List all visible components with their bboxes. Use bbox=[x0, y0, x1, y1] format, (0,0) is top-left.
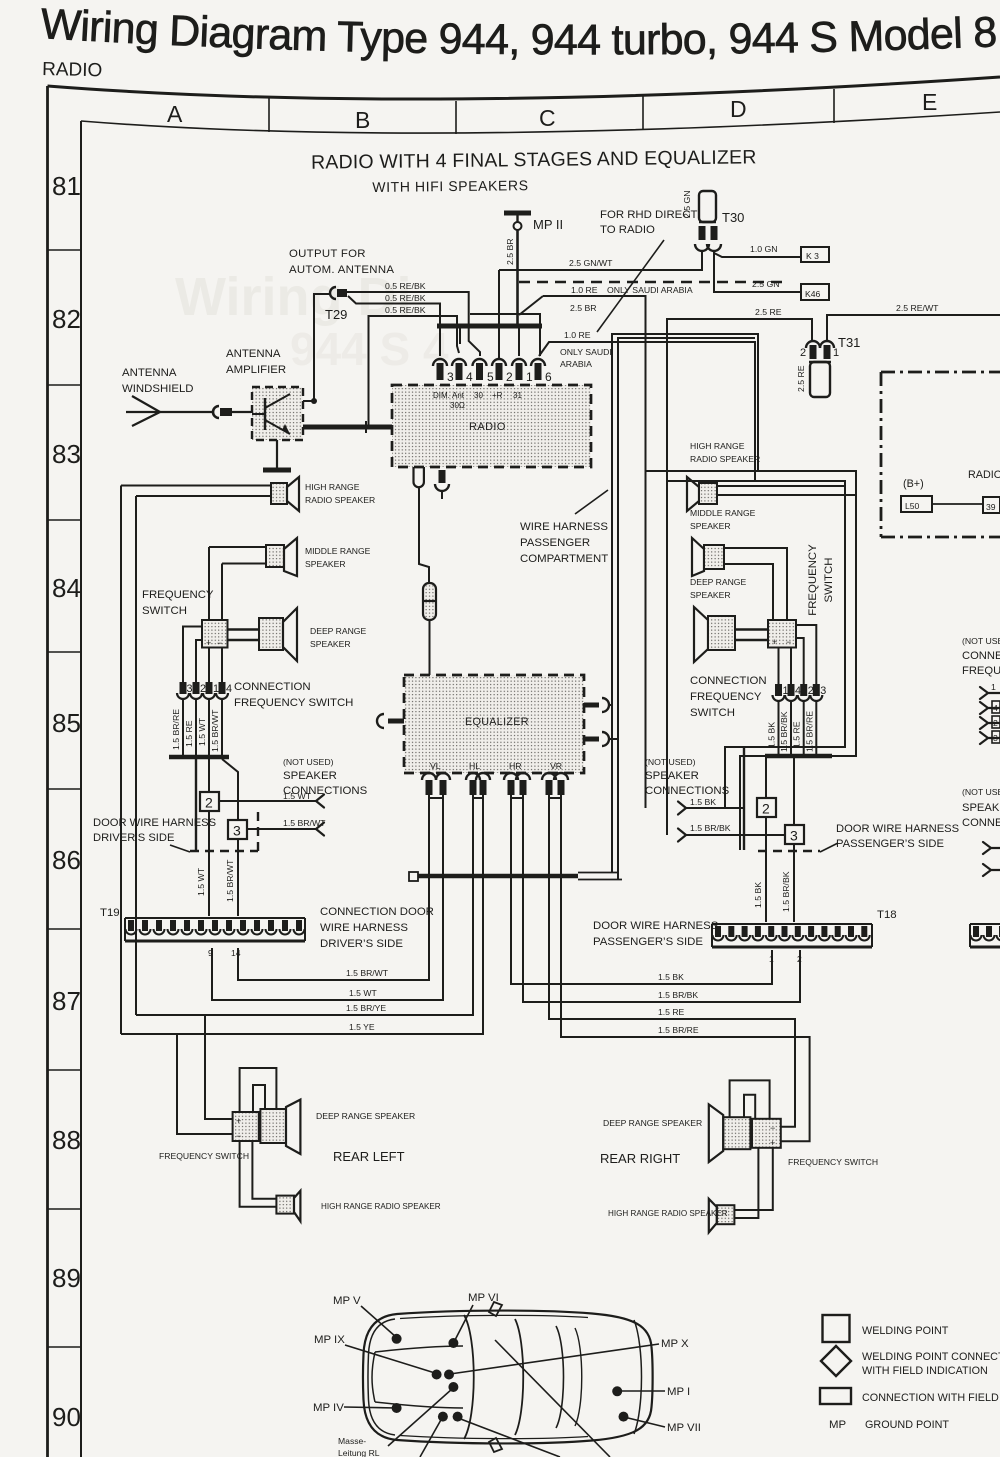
svg-text:30Ω: 30Ω bbox=[450, 401, 465, 410]
svg-text:2.5 GN: 2.5 GN bbox=[682, 190, 692, 218]
svg-text:ANTENNA: ANTENNA bbox=[122, 367, 177, 379]
svg-text:DRIVER’S SIDE: DRIVER’S SIDE bbox=[93, 832, 174, 844]
equalizer output pins VL HL HR VR bbox=[422, 773, 568, 798]
svg-text:T31: T31 bbox=[838, 335, 860, 350]
ground point dot MP VII bbox=[619, 1412, 701, 1434]
svg-text:HIGH RANGE RADIO SPEAKER: HIGH RANGE RADIO SPEAKER bbox=[608, 1209, 728, 1218]
svg-text:DEEP RANGE SPEAKER: DEEP RANGE SPEAKER bbox=[603, 1118, 702, 1128]
left switch wiring bbox=[183, 547, 222, 682]
fork wire 1.5 BR/BK (right) bbox=[678, 823, 785, 842]
svg-text:C: C bbox=[539, 105, 556, 131]
label Masse-Leitung RL with leader bbox=[338, 1389, 452, 1457]
svg-text:1.5 BR/BK: 1.5 BR/BK bbox=[781, 871, 791, 912]
rear left speaker loop wires bbox=[240, 1068, 277, 1112]
svg-text:CONNECTION DOOR: CONNECTION DOOR bbox=[320, 906, 434, 918]
label rear left bbox=[333, 1149, 405, 1164]
far right fork connectors (2) bbox=[983, 842, 1000, 876]
svg-text:MP X: MP X bbox=[661, 1338, 689, 1350]
svg-text:1.5 WT: 1.5 WT bbox=[349, 988, 377, 998]
svg-text:30: 30 bbox=[474, 391, 483, 400]
wire 1.0 RE only saudi arabia (solid) bbox=[543, 296, 646, 808]
svg-text:2: 2 bbox=[800, 347, 806, 359]
svg-text:(NOT USED): (NOT USED) bbox=[645, 757, 696, 767]
left high range radio speaker bbox=[121, 477, 375, 511]
svg-text:2.5 RE/WT: 2.5 RE/WT bbox=[896, 303, 939, 313]
svg-text:1.5 YE: 1.5 YE bbox=[349, 1022, 375, 1032]
right frequency switch bbox=[735, 620, 796, 648]
svg-text:82: 82 bbox=[52, 304, 81, 334]
radio unit bbox=[392, 385, 591, 467]
ground point dots MP IX pair bbox=[314, 1334, 454, 1380]
svg-text:HL: HL bbox=[469, 761, 480, 771]
far right not used speaker connections labels bbox=[962, 787, 1000, 829]
svg-text:SPEAKER: SPEAKER bbox=[690, 590, 731, 600]
svg-text:MP I: MP I bbox=[667, 1386, 690, 1398]
svg-text:T30: T30 bbox=[722, 210, 744, 225]
wire 2.5 BR bbox=[470, 303, 597, 356]
wire HR 1.5 BK bbox=[511, 795, 772, 984]
svg-text:WELDING POINT CONNECTION: WELDING POINT CONNECTION bbox=[862, 1351, 1000, 1363]
svg-text:REAR RIGHT: REAR RIGHT bbox=[600, 1151, 680, 1166]
label not used speaker connections (left) bbox=[283, 757, 368, 797]
svg-text:DIM.: DIM. bbox=[433, 391, 450, 400]
svg-text:89: 89 bbox=[52, 1263, 81, 1293]
svg-text:SWITCH: SWITCH bbox=[142, 605, 187, 617]
dashed bracket (passenger side) bbox=[758, 850, 820, 852]
legend welding point with field indication bbox=[821, 1346, 1000, 1377]
wire 2.5 BR from MP II bbox=[505, 230, 518, 326]
svg-text:Leitung RL: Leitung RL bbox=[338, 1448, 380, 1457]
svg-text:(NOT USED): (NOT USED) bbox=[283, 757, 334, 767]
wire VL 1.5 WT bbox=[212, 795, 443, 1000]
wire VR 1.5 BR/RE bbox=[561, 795, 810, 1141]
svg-text:0.5 RE/BK: 0.5 RE/BK bbox=[385, 281, 426, 291]
ground point dots rear pair bbox=[438, 1412, 463, 1422]
svg-text:1.5 BR/WT: 1.5 BR/WT bbox=[346, 968, 389, 978]
svg-text:D: D bbox=[730, 96, 747, 122]
svg-text:CONNEC: CONNEC bbox=[962, 817, 1000, 829]
svg-text:83: 83 bbox=[52, 439, 81, 469]
svg-text:3: 3 bbox=[790, 828, 798, 844]
svg-text:PASSENGER’S SIDE: PASSENGER’S SIDE bbox=[836, 838, 944, 850]
svg-text:FREQUENCY: FREQUENCY bbox=[142, 589, 214, 601]
svg-text:1.5 BR/BK: 1.5 BR/BK bbox=[658, 990, 698, 1000]
svg-text:CONNECTION WITH FIELD DA: CONNECTION WITH FIELD DA bbox=[862, 1392, 1000, 1404]
svg-text:HIGH RANGE: HIGH RANGE bbox=[305, 482, 360, 492]
column divider D-E bbox=[833, 89, 835, 123]
svg-text:39: 39 bbox=[986, 502, 996, 512]
car body outline (top view) bbox=[363, 1302, 653, 1452]
ground point dot MP VI bbox=[448, 1292, 498, 1348]
wire HL 1.5 YE bbox=[121, 795, 483, 1034]
svg-text:FREQUENCY: FREQUENCY bbox=[807, 544, 819, 616]
left frequency switch label bbox=[142, 589, 214, 617]
wire 0.5 RE/BK (2) bbox=[348, 293, 440, 356]
svg-text:HIGH RANGE RADIO SPEAKER: HIGH RANGE RADIO SPEAKER bbox=[321, 1202, 441, 1211]
label door wire harness passenger's side (lower) bbox=[593, 920, 719, 948]
rear left high range radio speaker bbox=[276, 1191, 440, 1221]
label connection frequency switch (right) bbox=[690, 675, 767, 719]
rear left high range speaker wires bbox=[240, 1141, 277, 1207]
svg-text:ANTENNA: ANTENNA bbox=[226, 348, 281, 360]
svg-text:SPEAKER: SPEAKER bbox=[305, 559, 346, 569]
svg-text:WIRE HARNESS: WIRE HARNESS bbox=[520, 521, 608, 533]
svg-text:RADIO: RADIO bbox=[968, 469, 1000, 481]
svg-text:CONNECTION: CONNECTION bbox=[234, 681, 311, 693]
svg-text:RADIO: RADIO bbox=[42, 59, 103, 81]
svg-text:0.5 RE/BK: 0.5 RE/BK bbox=[385, 305, 426, 315]
connector box 2 (driver side) bbox=[200, 792, 219, 811]
svg-text:TO RADIO: TO RADIO bbox=[600, 224, 655, 236]
label rear right bbox=[600, 1151, 680, 1166]
column divider A-B bbox=[268, 98, 270, 132]
wire 2.5 RE/WT bbox=[827, 303, 1000, 341]
radio bottom pin bbox=[435, 470, 449, 499]
svg-text:81: 81 bbox=[52, 171, 81, 201]
svg-text:FREQUENCY SWITCH: FREQUENCY SWITCH bbox=[159, 1151, 249, 1161]
harness vertical pair bbox=[612, 334, 758, 880]
amplifier ground bbox=[263, 440, 291, 470]
svg-text:VR: VR bbox=[550, 761, 562, 771]
svg-text:MIDDLE RANGE: MIDDLE RANGE bbox=[305, 546, 371, 556]
legend welding point bbox=[823, 1315, 949, 1342]
svg-text:3: 3 bbox=[993, 733, 998, 743]
svg-text:OUTPUT FOR: OUTPUT FOR bbox=[289, 248, 366, 260]
svg-text:1: 1 bbox=[769, 954, 774, 964]
left frequency switch bbox=[202, 620, 259, 648]
svg-text:4: 4 bbox=[226, 683, 232, 695]
ground point dot MP V bbox=[333, 1295, 402, 1344]
svg-text:WELDING POINT: WELDING POINT bbox=[862, 1325, 949, 1337]
svg-text:SPEAKER: SPEAKER bbox=[645, 770, 699, 782]
wires boxes to T19 bbox=[196, 811, 238, 916]
svg-text:1.5 BR/BK: 1.5 BR/BK bbox=[779, 711, 789, 752]
svg-text:1: 1 bbox=[991, 682, 996, 692]
svg-text:2: 2 bbox=[762, 801, 770, 817]
svg-text:DOOR WIRE HARNESS: DOOR WIRE HARNESS bbox=[836, 823, 959, 835]
svg-text:1.5 BK: 1.5 BK bbox=[767, 722, 777, 748]
svg-text:2: 2 bbox=[797, 954, 802, 964]
label not used speaker connections (right) bbox=[645, 757, 730, 797]
rear right high range radio speaker bbox=[608, 1199, 734, 1233]
svg-text:3: 3 bbox=[233, 823, 241, 839]
svg-text:2.5 RE: 2.5 RE bbox=[796, 365, 806, 392]
dashed wire 1.0 RE only saudi arabia bbox=[519, 282, 788, 295]
wire 0.5 RE/BK (1) bbox=[347, 281, 480, 356]
diagram heading bbox=[311, 146, 757, 195]
ground point dot MP I bbox=[612, 1386, 690, 1398]
svg-text:2.5 RE: 2.5 RE bbox=[755, 307, 782, 317]
inline connector capsule bbox=[423, 583, 436, 675]
svg-text:85: 85 bbox=[52, 708, 81, 738]
svg-text:HR: HR bbox=[509, 761, 522, 771]
svg-text:DEEP RANGE: DEEP RANGE bbox=[310, 626, 366, 636]
right frequency switch label (rotated) bbox=[807, 544, 835, 616]
svg-text:6: 6 bbox=[545, 370, 552, 384]
right connection frequency switch pins 1 4 2 3 bbox=[773, 684, 827, 701]
connector T29 bbox=[325, 287, 347, 322]
svg-text:L50: L50 bbox=[905, 501, 920, 511]
svg-text:FREQUENCY SWITCH: FREQUENCY SWITCH bbox=[234, 697, 353, 709]
wires boxes to T18 bbox=[753, 817, 794, 922]
wire 0.5 RE/BK (3) bbox=[369, 305, 460, 425]
wire 1.5 WT to fork (left) bbox=[219, 791, 324, 808]
svg-text:DEEP RANGE: DEEP RANGE bbox=[690, 577, 746, 587]
svg-text:+: + bbox=[772, 637, 777, 647]
wire to antenna amplifier supply bbox=[303, 294, 331, 404]
svg-text:SWITCH: SWITCH bbox=[823, 558, 835, 603]
svg-text:+: + bbox=[770, 1138, 775, 1148]
svg-text:(NOT USED: (NOT USED bbox=[962, 787, 1000, 797]
equalizer left input connector bbox=[377, 714, 404, 728]
radio pin 6 bbox=[531, 359, 552, 384]
connector T30 bbox=[682, 190, 744, 251]
ground point dot center bbox=[448, 1382, 458, 1392]
wire branch to rear left speaker (2) bbox=[177, 1034, 233, 1134]
ground point dot MP IV bbox=[313, 1402, 402, 1414]
svg-text:CONNECTION: CONNECTION bbox=[690, 675, 767, 687]
label door wire harness driver's side bbox=[93, 817, 216, 852]
label OUTPUT FOR AUTOM. ANTENNA bbox=[289, 248, 394, 276]
svg-text:VL: VL bbox=[430, 761, 441, 771]
svg-text:86: 86 bbox=[52, 845, 81, 875]
svg-text:MP II: MP II bbox=[533, 217, 563, 232]
watermark showthrough bbox=[175, 267, 449, 375]
right middle range speaker bbox=[690, 508, 787, 620]
wire VR 1.5 RE bbox=[549, 795, 795, 1127]
right high range radio speaker bbox=[687, 441, 856, 511]
far right partial connector strip bbox=[970, 924, 1000, 947]
right harness loop wires bbox=[646, 471, 857, 850]
svg-text:−: − bbox=[236, 1131, 241, 1141]
svg-text:DEEP RANGE SPEAKER: DEEP RANGE SPEAKER bbox=[316, 1111, 415, 1121]
svg-text:90: 90 bbox=[52, 1402, 81, 1432]
svg-text:1.0 GN: 1.0 GN bbox=[750, 244, 778, 254]
leader lines to labels below page edge bbox=[420, 1340, 610, 1457]
page title bbox=[39, 0, 1000, 81]
right deep range speaker bbox=[690, 577, 746, 662]
svg-text:2.5 BR: 2.5 BR bbox=[505, 238, 515, 265]
svg-text:HIGH RANGE: HIGH RANGE bbox=[690, 441, 745, 451]
wire 1.5 BR/WT to fork (left) bbox=[247, 818, 326, 836]
svg-text:WINDSHIELD: WINDSHIELD bbox=[122, 383, 194, 395]
equalizer right connector lower bbox=[584, 732, 618, 746]
svg-text:T18: T18 bbox=[877, 909, 897, 921]
svg-text:−: − bbox=[786, 637, 791, 647]
svg-text:K46: K46 bbox=[805, 289, 821, 299]
rear left frequency switch bbox=[159, 1112, 259, 1161]
svg-text:PASSENGER’S SIDE: PASSENGER’S SIDE bbox=[593, 936, 703, 948]
svg-text:3: 3 bbox=[447, 370, 454, 384]
svg-text:1.5 BK: 1.5 BK bbox=[658, 972, 684, 982]
svg-text:ONLY SAUDI: ONLY SAUDI bbox=[560, 347, 612, 357]
svg-text:RADIO SPEAKER: RADIO SPEAKER bbox=[305, 495, 375, 505]
fork wire 1.5 BK (right) bbox=[678, 797, 744, 815]
svg-text:ONLY SAUDI ARABIA: ONLY SAUDI ARABIA bbox=[607, 285, 693, 295]
svg-text:Masse-: Masse- bbox=[338, 1436, 366, 1446]
svg-text:(B+): (B+) bbox=[903, 478, 924, 490]
svg-text:1.5 BR/BK: 1.5 BR/BK bbox=[690, 823, 731, 833]
rear right high range speaker wires bbox=[734, 1148, 772, 1218]
svg-text:1.5 RE: 1.5 RE bbox=[658, 1007, 685, 1017]
label connection door wire harness driver's side bbox=[320, 906, 434, 950]
svg-text:FREQUENCY: FREQUENCY bbox=[690, 691, 762, 703]
svg-text:RADIO: RADIO bbox=[469, 421, 506, 433]
left junction bar bbox=[169, 757, 238, 850]
svg-text:PASSENGER: PASSENGER bbox=[520, 537, 590, 549]
svg-text:−: − bbox=[217, 638, 222, 648]
svg-text:WIRE HARNESS: WIRE HARNESS bbox=[320, 922, 408, 934]
connector box 3 (passenger side) bbox=[785, 825, 804, 844]
equalizer unit bbox=[404, 675, 584, 773]
svg-text:COMPARTMENT: COMPARTMENT bbox=[520, 553, 608, 565]
wire 2.5 GN to K46 bbox=[714, 253, 801, 292]
right switch wiring bbox=[779, 625, 817, 684]
svg-text:RADIO SPEAKER: RADIO SPEAKER bbox=[690, 454, 760, 464]
svg-text:1.5 BK: 1.5 BK bbox=[690, 797, 716, 807]
wire 1.0 RE to harness bbox=[539, 330, 755, 481]
svg-text:B: B bbox=[355, 107, 370, 133]
label FOR RHD DIRECT TO RADIO bbox=[597, 209, 697, 332]
far right fork connectors 1 4 2 3 bbox=[980, 682, 1000, 744]
relay box K46 bbox=[801, 284, 829, 300]
svg-text:MP V: MP V bbox=[333, 1295, 361, 1307]
wire HL 1.5 BR/YE bbox=[136, 795, 473, 1015]
svg-text:2.5 BR: 2.5 BR bbox=[570, 303, 597, 313]
legend connection with field data bbox=[820, 1388, 1000, 1404]
svg-text:1.5 BK: 1.5 BK bbox=[753, 882, 763, 908]
radio pin 1 bbox=[512, 359, 533, 384]
connector T31 bbox=[796, 335, 860, 397]
label door wire harness passenger's side (upper) bbox=[820, 823, 959, 852]
svg-text:REAR LEFT: REAR LEFT bbox=[333, 1149, 405, 1164]
svg-text:WITH FIELD INDICATION: WITH FIELD INDICATION bbox=[862, 1365, 988, 1377]
svg-text:4: 4 bbox=[466, 370, 473, 384]
wire 1.0 GN to K 3 bbox=[714, 244, 801, 257]
svg-text:1.0 RE: 1.0 RE bbox=[571, 285, 598, 295]
ground point MP II bbox=[504, 213, 563, 232]
svg-text:+R: +R bbox=[492, 391, 503, 400]
antenna connector bbox=[213, 406, 251, 418]
svg-text:1.5 WT: 1.5 WT bbox=[283, 791, 312, 801]
row dividers left column bbox=[48, 250, 82, 1347]
radio pin 5 bbox=[473, 359, 495, 384]
column divider B-C bbox=[455, 101, 457, 134]
svg-text:84: 84 bbox=[52, 573, 81, 603]
antenna windshield symbol bbox=[122, 367, 213, 426]
wire 2.5 RE bbox=[667, 307, 812, 481]
svg-text:MP: MP bbox=[829, 1419, 846, 1431]
svg-text:Wiring Di: Wiring Di bbox=[175, 267, 412, 327]
svg-text:1.5 BR/YE: 1.5 BR/YE bbox=[346, 1003, 386, 1013]
column divider C-D bbox=[642, 96, 644, 130]
rear right frequency switch bbox=[752, 1119, 878, 1167]
svg-text:FREQUENC: FREQUENC bbox=[962, 665, 1000, 677]
svg-text:DOOR WIRE HARNESS: DOOR WIRE HARNESS bbox=[593, 920, 719, 932]
svg-text:CONNECTIONS: CONNECTIONS bbox=[645, 785, 730, 797]
svg-text:ARABIA: ARABIA bbox=[560, 359, 592, 369]
svg-text:T29: T29 bbox=[325, 307, 347, 322]
right junction bar bbox=[744, 747, 832, 850]
svg-text:FREQUENCY SWITCH: FREQUENCY SWITCH bbox=[788, 1157, 878, 1167]
ground point dot MP X leader bbox=[450, 1338, 689, 1374]
svg-text:5: 5 bbox=[487, 370, 494, 384]
rear left deep range speaker bbox=[260, 1100, 415, 1154]
svg-text:1.5 RE: 1.5 RE bbox=[184, 720, 194, 747]
svg-text:K 3: K 3 bbox=[806, 251, 819, 261]
connector box 3 (driver side) bbox=[228, 820, 247, 839]
svg-text:MP VII: MP VII bbox=[667, 1422, 701, 1434]
svg-text:SPEAKER: SPEAKER bbox=[310, 639, 351, 649]
svg-text:14: 14 bbox=[231, 948, 241, 958]
battery supply box (B+) dash-dot bbox=[881, 372, 1000, 537]
svg-text:MIDDLE RANGE: MIDDLE RANGE bbox=[690, 508, 756, 518]
svg-text:AMPLIFIER: AMPLIFIER bbox=[226, 364, 286, 376]
connector strip T19 bbox=[100, 907, 305, 958]
label wire harness passenger compartment bbox=[520, 490, 608, 565]
svg-text:0.5 RE/BK: 0.5 RE/BK bbox=[385, 293, 426, 303]
svg-text:1.5 BR/WT: 1.5 BR/WT bbox=[225, 859, 235, 902]
svg-text:1: 1 bbox=[526, 370, 533, 384]
svg-text:Ant: Ant bbox=[452, 391, 465, 400]
svg-text:EQUALIZER: EQUALIZER bbox=[465, 716, 529, 728]
far right not used connection frequency labels bbox=[962, 636, 1000, 677]
equalizer right connector upper bbox=[584, 698, 612, 712]
svg-text:1.5 BR/RE: 1.5 BR/RE bbox=[658, 1025, 699, 1035]
svg-text:3: 3 bbox=[820, 685, 826, 697]
connector box 2 (passenger side) bbox=[757, 798, 776, 817]
left connection frequency switch pins 3 2 1 4 bbox=[177, 682, 232, 699]
wire 2.5 GN/WT bbox=[499, 251, 702, 358]
radio pin 4 bbox=[452, 359, 473, 384]
svg-text:+: + bbox=[236, 1116, 241, 1126]
relay box K 3 bbox=[801, 247, 829, 262]
main harness bar bbox=[409, 872, 622, 881]
svg-text:1.5 RE: 1.5 RE bbox=[792, 721, 802, 748]
rear right speaker loop wires bbox=[730, 1080, 770, 1118]
svg-text:AUTOM. ANTENNA: AUTOM. ANTENNA bbox=[289, 264, 394, 276]
wire HR 1.5 BR/BK bbox=[523, 795, 800, 1002]
connector strip T18 bbox=[712, 909, 897, 964]
svg-text:2: 2 bbox=[993, 718, 998, 728]
svg-text:1.5 BR/WT: 1.5 BR/WT bbox=[210, 709, 220, 752]
left deep range speaker bbox=[259, 608, 366, 661]
svg-text:2.5 GN: 2.5 GN bbox=[752, 279, 780, 289]
coax cable amplifier to radio bbox=[303, 421, 392, 433]
left pin drop wires with labels bbox=[171, 699, 222, 756]
svg-text:87: 87 bbox=[52, 986, 81, 1016]
svg-text:T19: T19 bbox=[100, 907, 120, 919]
label connection frequency switch (left) bbox=[234, 681, 353, 709]
radio pin 3 bbox=[433, 359, 454, 384]
svg-text:1.5 WT: 1.5 WT bbox=[196, 867, 206, 896]
svg-text:31: 31 bbox=[513, 391, 522, 400]
wire VL 1.5 BR/WT bbox=[238, 795, 429, 980]
svg-text:SPEAKER: SPEAKER bbox=[283, 770, 337, 782]
svg-text:4: 4 bbox=[993, 703, 998, 713]
svg-text:MP VI: MP VI bbox=[468, 1292, 499, 1304]
left middle range speaker bbox=[209, 538, 371, 576]
legend MP ground point bbox=[829, 1419, 949, 1431]
ground bus bar bbox=[437, 296, 543, 356]
svg-text:1.5 BR/RE: 1.5 BR/RE bbox=[171, 709, 181, 750]
svg-text:E: E bbox=[922, 89, 937, 115]
svg-text:SWITCH: SWITCH bbox=[690, 707, 735, 719]
wire branch to rear left speaker (1) bbox=[205, 1015, 233, 1119]
svg-text:1.5 BR/RE: 1.5 BR/RE bbox=[804, 711, 814, 752]
svg-text:1.0 RE: 1.0 RE bbox=[564, 330, 591, 340]
svg-text:2.5 GN/WT: 2.5 GN/WT bbox=[569, 258, 613, 268]
